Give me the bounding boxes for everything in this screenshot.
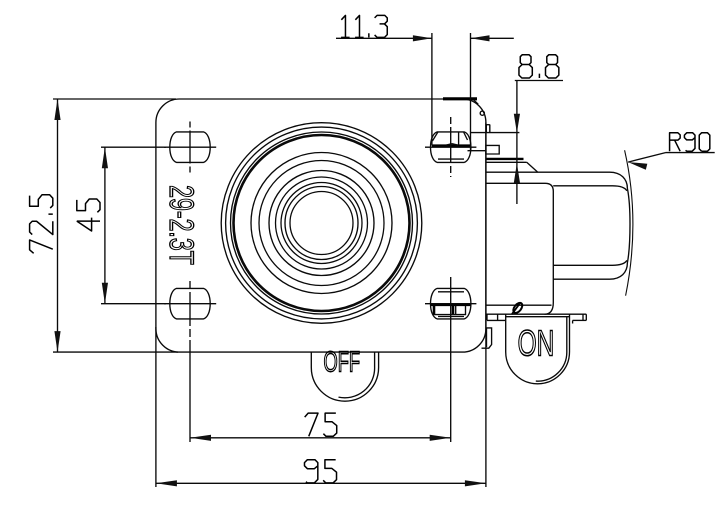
- plate top-right edge-on curl: [443, 99, 484, 115]
- plate label 29-2.3T: [162, 185, 199, 265]
- plate outline: [156, 99, 486, 352]
- side view: stem boss: [471, 125, 520, 133]
- svg-text:29-2.3T: 29-2.3T: [162, 185, 199, 265]
- R90 crown reference arc: [625, 150, 633, 295]
- side view: OFF pedal tab: [482, 328, 492, 348]
- side view: fork top plate: [486, 159, 538, 172]
- dimension 95: [156, 123, 486, 488]
- dimension 11.3: [336, 15, 514, 150]
- side view: brake spring loop: [512, 301, 525, 314]
- side view: swivel fork housing: [486, 183, 553, 314]
- OFF brake pedal front view: [311, 352, 378, 401]
- side view: wheel outline: [486, 172, 630, 279]
- dimension 72.5: [30, 99, 178, 352]
- dimension R90: [628, 133, 715, 170]
- mounting hole top-left: [164, 122, 216, 173]
- svg-text:OFF: OFF: [324, 346, 361, 378]
- OFF label: [324, 346, 361, 378]
- ON label: [518, 323, 555, 364]
- dimension 45: [77, 147, 166, 304]
- side view: step block: [468, 145, 500, 154]
- mounting hole bottom-left: [164, 281, 216, 353]
- ON pedal body: [506, 314, 570, 384]
- swivel bearing rings: [221, 123, 422, 324]
- svg-text:ON: ON: [518, 323, 555, 364]
- dimension 75: [190, 277, 451, 442]
- ON pedal mounting bar: [487, 314, 587, 323]
- mounting hole bottom-right with brake pins seen through: [425, 288, 476, 319]
- dimension 8.8: [514, 55, 563, 204]
- mounting hole top-right with brake cam seen through: [425, 117, 476, 177]
